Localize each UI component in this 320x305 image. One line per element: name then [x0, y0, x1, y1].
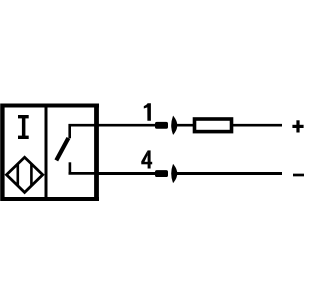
wire: box to top connector — [97, 124, 156, 127]
wire: top connector to resistor — [176, 124, 195, 127]
divider between sensor cells — [45, 104, 48, 201]
connector socket (bottom) — [172, 165, 177, 182]
diamond inner chord right — [30, 164, 33, 186]
connector pin (top) — [155, 122, 168, 129]
wire: bottom connector to minus terminal — [176, 172, 283, 175]
diamond inner chord left — [16, 164, 19, 186]
switch top contact horizontal — [69, 124, 97, 127]
pin 1 label — [144, 103, 151, 120]
minus terminal — [293, 174, 304, 177]
plus terminal — [292, 125, 303, 128]
load resistor — [195, 119, 232, 132]
pin 4 label — [141, 150, 152, 168]
switch top contact vertical — [68, 124, 71, 138]
switch bottom contact vertical — [69, 162, 72, 173]
non-contact sensor diamond symbol — [7, 157, 43, 192]
switch bottom contact horizontal — [69, 172, 97, 175]
wire: resistor to plus terminal — [233, 124, 282, 127]
wire: box to bottom connector — [97, 172, 156, 175]
sensor body box — [0, 104, 4, 202]
connector pin (bottom) — [155, 170, 168, 177]
label I (inductive sensor mark) — [18, 115, 29, 139]
connector socket (top) — [172, 117, 177, 134]
switch blade — [56, 138, 68, 160]
